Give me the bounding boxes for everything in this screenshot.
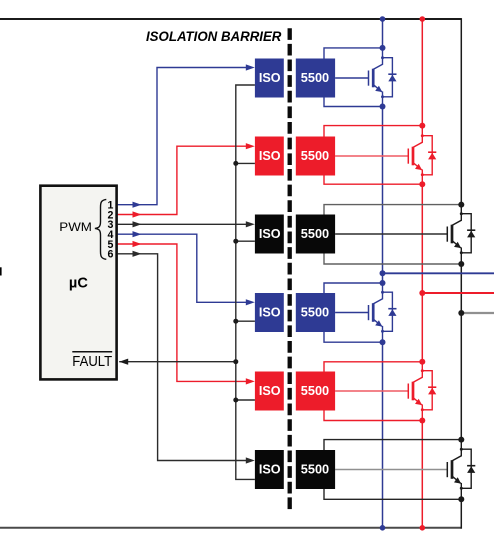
wire U2 FAULT stub [236,162,255,164]
node Q1 collector stub [381,56,384,59]
transistor Q1 IGBT [373,48,382,70]
wire U6 gate drive output [335,469,447,471]
isolator input side U3A ISO [255,215,284,254]
wire black bus right side upper [460,18,462,205]
microcontroller U7 uC box [40,186,116,380]
wire blue bus mid [382,106,384,284]
wire U3 FAULT stub [236,240,255,242]
svg-text:5500: 5500 [301,462,329,477]
node Q4 emitter stub [381,330,384,333]
wire black bus lower [460,499,462,529]
isolator input side U4A ISO [255,293,284,332]
wire red bus mid [421,183,423,362]
node Q6 emitter stub [460,487,463,490]
node Q3 emitter junction [458,261,464,267]
wire PWM4 direction arrow [133,231,142,237]
wire positive DC rail (top) [0,18,461,20]
wire U4 top supply loop [324,283,383,293]
node FAULT junction U4 [233,319,238,324]
node Q3 emitter stub [460,251,463,254]
wire phase B output [422,292,494,294]
node Q6 emitter junction [458,496,464,502]
wire PWM4 input arrow [246,299,255,305]
wire U6 bottom supply loop [324,489,461,499]
wire U1 bottom supply loop [324,98,383,107]
cut-off label fragment at left edge [0,267,2,275]
diode D6 freewheel [461,449,471,488]
wire PWM3 direction arrow [133,221,142,227]
wire PWM1 direction arrow [133,202,142,208]
wire PWM6 direction arrow [133,251,142,257]
node blue bus on bottom rail [380,525,386,531]
svg-text:µC: µC [69,276,88,292]
wire PWM5 direction arrow [133,241,142,247]
node Q6 collector junction [458,437,464,443]
node FAULT bus to uC junction [233,359,238,364]
diode D5 freewheel [422,371,432,410]
wire PWM1 input arrow [246,64,255,70]
wire U2 top supply loop [324,126,422,137]
transistor Q3 IGBT [452,205,461,226]
wire U4 gate drive output [335,312,368,314]
isolator input side U5A ISO [255,372,284,411]
transistor Q4 IGBT [373,283,382,304]
wire U3 gate drive output [335,233,447,235]
wire PWM1 from uC to ISO [118,68,250,205]
gate driver output side U4B 5500 [296,293,335,332]
node Q5 emitter junction [419,418,425,424]
node Q2 emitter junction [419,181,425,187]
svg-text:5500: 5500 [301,383,329,398]
svg-text:ISO: ISO [259,226,281,241]
gate driver output side U3B 5500 [296,215,335,254]
svg-text:ISO: ISO [259,383,281,398]
isolation barrier dashed line [288,28,292,509]
wire U5 FAULT stub [236,399,255,401]
wire red bus upper [421,19,423,127]
wire U1 gate drive output [335,77,368,79]
gate driver output side U5B 5500 [296,372,335,411]
wire U2 bottom supply loop [324,176,422,185]
diode D3 freewheel [461,214,471,253]
wire PWM5 from uC to ISO [118,244,250,381]
svg-text:FAULT: FAULT [72,354,112,370]
wire U3 bottom supply loop [324,254,461,265]
wire blue bus lower [382,341,384,528]
wire PWM6 from uC to ISO [118,254,250,461]
wire U4 bottom supply loop [324,332,383,342]
wire PWM6 input arrow [246,457,255,463]
wire U5 top supply loop [324,362,422,372]
node Q1 emitter stub [381,95,384,98]
svg-text:ISO: ISO [259,462,281,477]
wire U1 top supply loop [324,48,383,59]
node blue bus on top rail [380,16,386,22]
wire U4 FAULT stub [236,320,255,322]
node Q2 collector stub [421,134,424,137]
svg-text:5500: 5500 [301,305,329,320]
isolator input side U1A ISO [255,59,284,98]
wire phase C output [461,312,494,314]
diode D1 freewheel [383,58,393,97]
wire U6 top supply loop [324,440,461,450]
node red bus on top rail [420,16,426,22]
svg-text:ISO: ISO [259,148,281,163]
node phase A tap [380,270,386,276]
wire PWM2 direction arrow [133,211,142,217]
gate driver output side U1B 5500 [296,59,335,98]
gate driver output side U2B 5500 [296,137,335,176]
transistor Q2 IGBT [413,126,422,148]
node Q5 emitter stub [421,408,424,411]
node Q2 collector junction [419,123,425,129]
wire U5 bottom supply loop [324,411,422,421]
svg-text:5500: 5500 [301,226,329,241]
node red bus on bottom rail [420,525,426,531]
transistor Q5 IGBT [413,362,422,383]
wire FAULT to uC [119,361,236,363]
node FAULT junction U3 [233,239,238,244]
node phase B tap [419,290,425,296]
svg-text:5500: 5500 [301,148,329,163]
node Q6 collector stub [460,448,463,451]
node Q4 collector stub [381,291,384,294]
node Q1 emitter junction [380,104,386,110]
wire negative DC rail (bottom) [0,527,461,529]
wire PWM4 from uC to ISO [118,234,250,302]
svg-text:ISO: ISO [259,305,281,320]
node Q4 collector junction [380,280,386,286]
node Q5 collector stub [421,369,424,372]
wire black bus mid [460,263,462,440]
wire phase A output [383,272,494,274]
brace for PWM pins [95,199,106,259]
node FAULT junction U5 [233,398,238,403]
wire U5 gate drive output [335,390,408,392]
node Q3 collector junction [458,202,464,208]
transistor Q6 IGBT [452,440,461,461]
node Q3 collector stub [460,212,463,215]
diode D4 freewheel [383,292,393,331]
wire PWM3 input arrow [246,221,255,227]
wire PWM3 from uC to ISO [118,223,250,225]
gate driver output side U6B 5500 [296,450,335,489]
diode D2 freewheel [422,136,432,175]
wire FAULT arrow into uC [119,359,128,365]
isolator input side U2A ISO [255,137,284,176]
svg-text:PWM: PWM [59,220,92,234]
wire U2 gate drive output [335,155,408,157]
wire red bus lower [421,420,423,528]
wire FAULT bus vertical [236,85,255,479]
svg-text:ISO: ISO [259,70,281,85]
node Q1 collector junction [380,45,386,51]
node Q5 collector junction [419,359,425,365]
svg-text:ISOLATION BARRIER: ISOLATION BARRIER [146,29,282,44]
node FAULT junction U2 [233,161,238,166]
node Q4 emitter junction [380,339,386,345]
wire U3 top supply loop [324,205,461,215]
wire blue bus upper [382,19,384,49]
svg-text:6: 6 [107,249,113,261]
wire PWM2 from uC to ISO [118,146,250,214]
node phase C tap [458,310,464,316]
svg-text:5500: 5500 [301,70,329,85]
isolator input side U6A ISO [255,450,284,489]
wire PWM2 input arrow [246,143,255,149]
node Q2 emitter stub [421,173,424,176]
wire PWM5 input arrow [246,378,255,384]
